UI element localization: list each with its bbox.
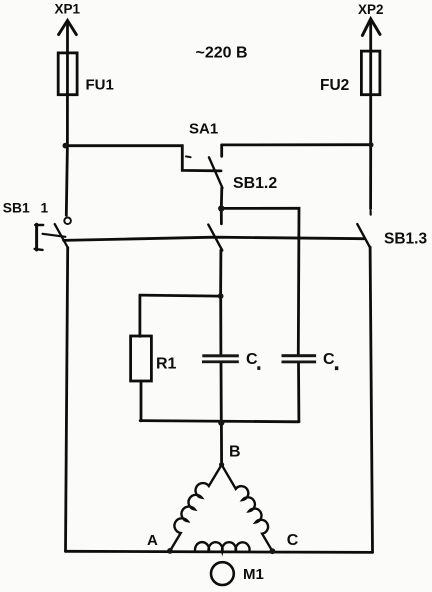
svg-text:C: C	[246, 351, 258, 368]
svg-text:B: B	[229, 443, 241, 460]
svg-text:SB1.2: SB1.2	[233, 175, 277, 192]
svg-text:A: A	[147, 532, 158, 549]
svg-text:M1: M1	[243, 566, 264, 583]
svg-text:R1: R1	[156, 355, 177, 372]
svg-text:C: C	[287, 532, 299, 549]
svg-text:SA1: SA1	[189, 120, 218, 137]
svg-text:~220 В: ~220 В	[196, 44, 248, 61]
svg-text:FU1: FU1	[86, 76, 114, 93]
svg-text:XP2: XP2	[358, 2, 384, 17]
svg-text:XP1: XP1	[55, 1, 81, 16]
svg-text:SB1.3: SB1.3	[384, 230, 427, 247]
svg-text:FU2: FU2	[320, 77, 349, 94]
svg-text:C: C	[323, 351, 335, 368]
svg-text:1: 1	[41, 200, 49, 215]
svg-text:SB1: SB1	[3, 200, 30, 215]
